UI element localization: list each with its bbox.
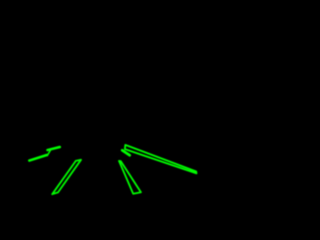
bolt upper stroke [48, 147, 60, 150]
bolt jog stroke [47, 150, 51, 156]
bolt lower stroke [29, 155, 47, 161]
shard B (right long outlined sliver) [125, 145, 197, 174]
lightning bolt debris (left) [29, 147, 60, 161]
shard A (lower-left long outlined sliver) [52, 160, 81, 194]
shard C (center-down outlined sliver) [119, 161, 141, 194]
small solid bar (center) [122, 150, 130, 155]
